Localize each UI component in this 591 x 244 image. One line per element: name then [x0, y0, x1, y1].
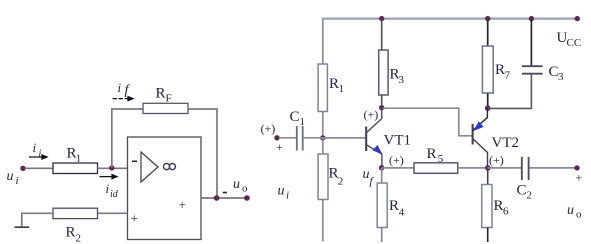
label U_CC: [557, 30, 582, 49]
svg-text:i: i: [33, 140, 37, 155]
svg-text:R: R: [495, 62, 505, 78]
svg-text:R: R: [66, 225, 76, 241]
resistor R2: [53, 208, 98, 218]
svg-text:o: o: [576, 209, 582, 221]
svg-text:+: +: [179, 197, 186, 212]
label R_7: [495, 62, 511, 82]
node emitter VT1 (uf): [379, 165, 385, 171]
svg-text:F: F: [166, 93, 172, 105]
svg-text:i: i: [286, 190, 289, 202]
label C_2: [517, 183, 533, 202]
terminal UCC: [575, 16, 580, 21]
svg-text:R: R: [389, 198, 399, 214]
wire R2 to op-amp: [98, 212, 128, 214]
svg-text:(+): (+): [364, 108, 379, 122]
svg-text:u: u: [278, 184, 285, 199]
wire input to C1: [279, 137, 296, 139]
label R_6: [494, 198, 510, 218]
svg-text:1: 1: [300, 116, 306, 128]
transistor Q1 emitter lead: [366, 145, 382, 168]
wire R4 down: [381, 228, 383, 243]
resistor R2 (bias lower): [318, 154, 328, 200]
transistor Q1 collector lead: [366, 108, 382, 133]
wire feedback left vertical: [111, 109, 113, 168]
label R1: [67, 146, 82, 165]
label i_i: [33, 140, 42, 160]
wire rail to R3: [381, 20, 383, 50]
transistor Q1 emitter arrow (NPN): [373, 145, 382, 154]
transistor Q1 (VT1) bar: [365, 127, 367, 152]
svg-text:R: R: [494, 198, 504, 214]
svg-text:3: 3: [558, 71, 564, 83]
capacitor C2: [522, 157, 529, 180]
svg-text:3: 3: [399, 74, 405, 86]
resistor R3: [379, 50, 388, 95]
svg-text:6: 6: [503, 206, 509, 218]
node collector VT2: [485, 165, 491, 171]
wire C2 to output terminal: [530, 167, 578, 169]
node base VT1: [320, 135, 325, 140]
label R1 (right): [329, 76, 344, 95]
wire collector node to R6: [487, 168, 489, 185]
wire rail to C3: [530, 20, 532, 66]
svg-text:R: R: [329, 76, 339, 92]
wire C3 return to emitter node: [488, 74, 532, 109]
label i_id: [106, 181, 119, 200]
terminal input (+): [274, 135, 279, 140]
op-amp U1 box: [128, 137, 202, 240]
current arrow i_f: [113, 98, 134, 100]
wire collector node to VT2 base: [383, 108, 472, 136]
svg-text:o: o: [242, 183, 248, 195]
resistor R4: [377, 183, 387, 228]
svg-text:+: +: [276, 140, 283, 154]
svg-text:1: 1: [339, 83, 345, 95]
svg-text:u: u: [363, 167, 370, 182]
label u_o (right): [567, 203, 582, 221]
wire op-amp output: [202, 197, 248, 199]
transistor Q2 emitter lead: [473, 108, 488, 130]
wire collector node to C2: [488, 167, 522, 169]
wire ui to R1: [25, 167, 53, 169]
svg-text:(+): (+): [489, 153, 504, 167]
transistor Q2 (VT2) bar: [472, 124, 474, 145]
capacitor C1: [297, 126, 303, 151]
label R_3: [390, 67, 405, 87]
wire base node to R2: [322, 138, 324, 154]
svg-text:7: 7: [505, 70, 511, 82]
svg-text:(+): (+): [389, 153, 404, 167]
svg-text:i: i: [106, 181, 110, 196]
node A (inverting input junction): [109, 165, 114, 170]
label u_f: [363, 167, 375, 188]
wire feedback top left: [111, 108, 143, 110]
wire uf node to R4: [381, 168, 383, 183]
wire R6 down: [487, 228, 489, 243]
label u_o: [233, 177, 248, 195]
svg-text:id: id: [110, 189, 119, 200]
terminal output uo (right): [574, 165, 579, 170]
current arrow i_i: [29, 156, 48, 158]
wire C1 to base node: [304, 137, 323, 139]
node top rail R3: [379, 16, 384, 21]
wire uf node to R5: [382, 167, 414, 169]
label R2: [66, 225, 82, 244]
svg-text:i: i: [39, 149, 42, 160]
wire R1 to base node: [322, 112, 324, 139]
svg-text:CC: CC: [567, 37, 582, 49]
terminal ui (input): [20, 166, 25, 171]
node emitter VT2: [485, 105, 491, 111]
label R_5: [427, 146, 444, 165]
svg-text:u: u: [567, 203, 574, 218]
label RF: [156, 86, 172, 105]
svg-text:5: 5: [438, 153, 444, 165]
svg-text:(+): (+): [261, 122, 276, 136]
label u_i: [7, 169, 19, 187]
resistor RF: [143, 103, 188, 113]
svg-text:1: 1: [76, 153, 82, 165]
op-amp gain symbol infinity: [164, 164, 176, 170]
svg-text:i: i: [118, 80, 122, 95]
node top rail C3: [529, 16, 534, 21]
label C_3: [549, 64, 565, 83]
label u_i (right): [278, 184, 290, 202]
resistor R1 (bias upper): [318, 64, 327, 112]
resistor R6: [482, 185, 492, 228]
ground: [15, 226, 30, 228]
wire base VT1: [323, 137, 366, 139]
svg-text:2: 2: [76, 233, 82, 244]
wire R2 down: [322, 200, 324, 242]
wire feedback top right: [188, 108, 217, 110]
wire feedback right vertical: [216, 108, 218, 198]
op-amp inverting input mark -: [132, 160, 137, 162]
svg-text:C: C: [517, 183, 527, 199]
wire R1 to op-amp: [98, 167, 128, 169]
wire rail to R1: [322, 20, 324, 64]
wire R5 to collector node VT2: [458, 167, 488, 169]
wire R3 to collector node: [381, 95, 383, 108]
current arrow i_id: [100, 176, 118, 178]
terminal uo (output): [244, 195, 250, 201]
resistor R7: [482, 46, 493, 93]
wire rail to R7: [487, 20, 489, 46]
node top rail R7: [485, 16, 490, 21]
label i_f: [118, 80, 131, 98]
svg-text:+: +: [131, 211, 138, 226]
wire UCC top rail: [322, 18, 578, 20]
svg-text:f: f: [370, 176, 375, 188]
svg-text:u: u: [233, 177, 240, 192]
capacitor C3: [522, 66, 543, 74]
svg-text:i: i: [16, 175, 19, 187]
svg-text:2: 2: [527, 190, 533, 202]
label R_4: [389, 198, 405, 219]
transistor Q2 collector lead: [473, 139, 488, 168]
svg-text:C: C: [549, 64, 559, 80]
resistor R1: [53, 163, 98, 174]
svg-text:+: +: [576, 171, 583, 185]
node collector VT1: [379, 105, 384, 110]
svg-text:VT2: VT2: [492, 135, 520, 151]
svg-text:2: 2: [338, 176, 344, 188]
node B (feedback/output junction): [214, 195, 220, 201]
label R2 (right): [329, 166, 344, 188]
wire R2 to ground: [22, 213, 53, 227]
label C_1: [290, 109, 306, 128]
op-amp triangle: [141, 152, 158, 182]
output polarity mark -: [223, 192, 227, 194]
svg-text:R: R: [156, 86, 166, 102]
svg-text:4: 4: [399, 207, 405, 219]
wire R7 to emitter node VT2: [487, 93, 489, 108]
svg-text:f: f: [125, 83, 131, 98]
transistor Q2 emitter arrow (PNP): [474, 122, 483, 130]
svg-text:u: u: [7, 169, 14, 184]
svg-text:VT1: VT1: [384, 133, 412, 149]
svg-text:R: R: [427, 146, 437, 162]
svg-text:C: C: [290, 109, 300, 125]
resistor R5: [414, 163, 458, 174]
